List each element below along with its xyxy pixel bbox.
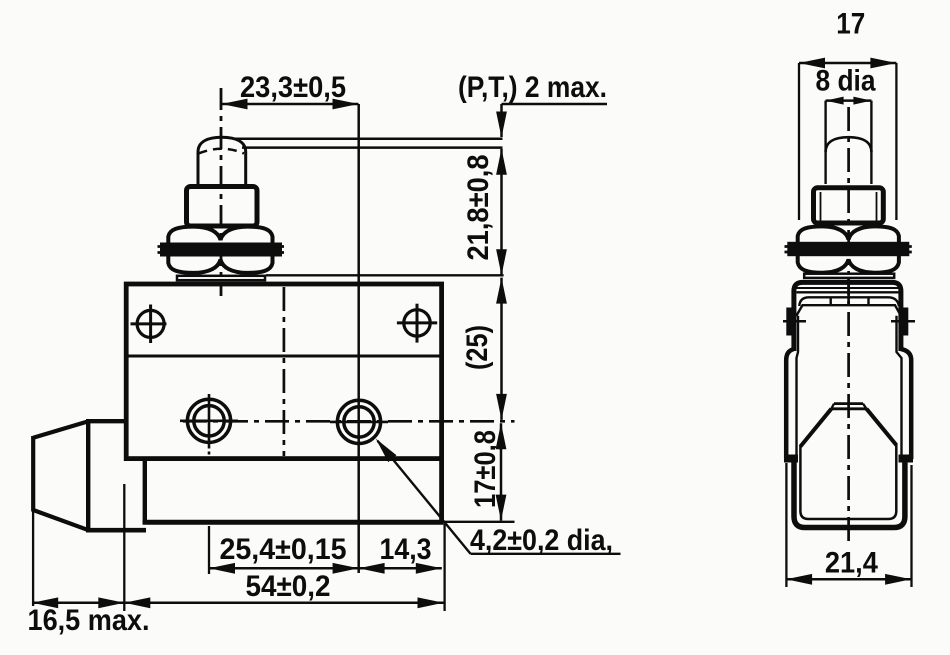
leader 4,2 dia xyxy=(378,441,471,554)
svg-text:54±0,2: 54±0,2 xyxy=(246,570,331,603)
svg-text:4,2±0,2 dia,: 4,2±0,2 dia, xyxy=(470,524,613,557)
extension line body bottom right xyxy=(445,521,515,523)
plunger cap hidden dashed arc xyxy=(199,149,245,154)
clip inner line 1a xyxy=(797,287,900,289)
upper hex nut xyxy=(168,227,272,244)
extension line at panel surface xyxy=(266,274,504,276)
wire: plunger centerline axis xyxy=(220,88,223,296)
svg-text:21,4: 21,4 xyxy=(825,547,878,580)
svg-text:23,3±0,5: 23,3±0,5 xyxy=(240,71,346,104)
side dim 8 dia xyxy=(826,99,872,102)
dimension 21,8±0,8 vertical line xyxy=(500,149,503,275)
side centerline xyxy=(847,107,850,543)
side dim 21,4 xyxy=(785,463,787,587)
clip inner line 3 trapezoid xyxy=(796,305,901,316)
body section divider xyxy=(124,355,443,358)
side outer thick U xyxy=(794,461,905,528)
dimension 17±0,8 vertical line xyxy=(500,423,503,520)
dimension 16,5 / 54 line xyxy=(32,602,443,605)
side upper hex nut xyxy=(798,226,899,243)
svg-text:25,4±0,15: 25,4±0,15 xyxy=(220,533,347,566)
center seam xyxy=(847,279,850,306)
side pentagon top strip xyxy=(834,402,863,405)
plunger cap dome xyxy=(198,137,246,185)
svg-text:16,5 max.: 16,5 max. xyxy=(28,604,150,637)
side plunger xyxy=(824,101,826,184)
dimension 23,3±0,5 line xyxy=(222,103,359,106)
side hooks xyxy=(786,308,794,336)
cable bushing cone (trapezoid) xyxy=(33,421,88,438)
(P,T,) 2 max. underline and leader xyxy=(502,103,608,106)
terminal hole left xyxy=(187,399,230,442)
clip tabs xyxy=(830,298,832,306)
side dim 17 xyxy=(799,62,896,65)
svg-text:17: 17 xyxy=(836,8,865,41)
svg-text:14,3: 14,3 xyxy=(380,533,432,566)
dimension 25,4 / 14,3 line xyxy=(209,567,442,570)
side lock washer black band xyxy=(787,242,909,256)
svg-text:(P,T,) 2 max.: (P,T,) 2 max. xyxy=(458,71,607,104)
toothed lock washer (black band) xyxy=(160,243,282,257)
flat washer xyxy=(177,276,265,280)
svg-text:21,8±0,8: 21,8±0,8 xyxy=(462,155,495,261)
mounting hole right xyxy=(404,310,430,336)
svg-text:17±0,8: 17±0,8 xyxy=(469,430,502,508)
extension lines bottom dims xyxy=(32,510,34,606)
lower hex nut xyxy=(168,255,272,273)
side inner thin U xyxy=(800,444,896,520)
lower base right edge xyxy=(439,456,444,522)
clip inner line 2 xyxy=(799,297,899,306)
terminal hole right xyxy=(337,400,380,443)
lower base section left edge xyxy=(143,459,147,524)
clip inner line 1b xyxy=(797,291,900,293)
mounting hole left xyxy=(137,310,164,337)
dimension (25) vertical line xyxy=(500,278,503,420)
side shoulders and outer walls xyxy=(786,349,794,459)
junction blobs xyxy=(784,455,798,463)
body vertical centerline xyxy=(283,287,286,456)
plunger free/pressed position lines xyxy=(235,138,503,141)
extension line through right terminal (vertical) xyxy=(357,104,360,573)
side clip outer xyxy=(794,282,901,351)
svg-text:(25): (25) xyxy=(461,325,494,370)
svg-text:8 dia: 8 dia xyxy=(816,65,876,98)
side pentagon slants xyxy=(800,409,831,447)
side hex bushing xyxy=(814,188,884,223)
cable gland block xyxy=(86,419,126,423)
lower base section bottom xyxy=(143,520,444,525)
switch body outline xyxy=(126,284,441,459)
terminal centerline horizontal xyxy=(183,420,515,423)
side flat washer xyxy=(804,274,894,278)
side inner walls xyxy=(797,316,799,459)
side lower hex nut xyxy=(798,255,899,273)
hex bushing block xyxy=(187,187,258,227)
